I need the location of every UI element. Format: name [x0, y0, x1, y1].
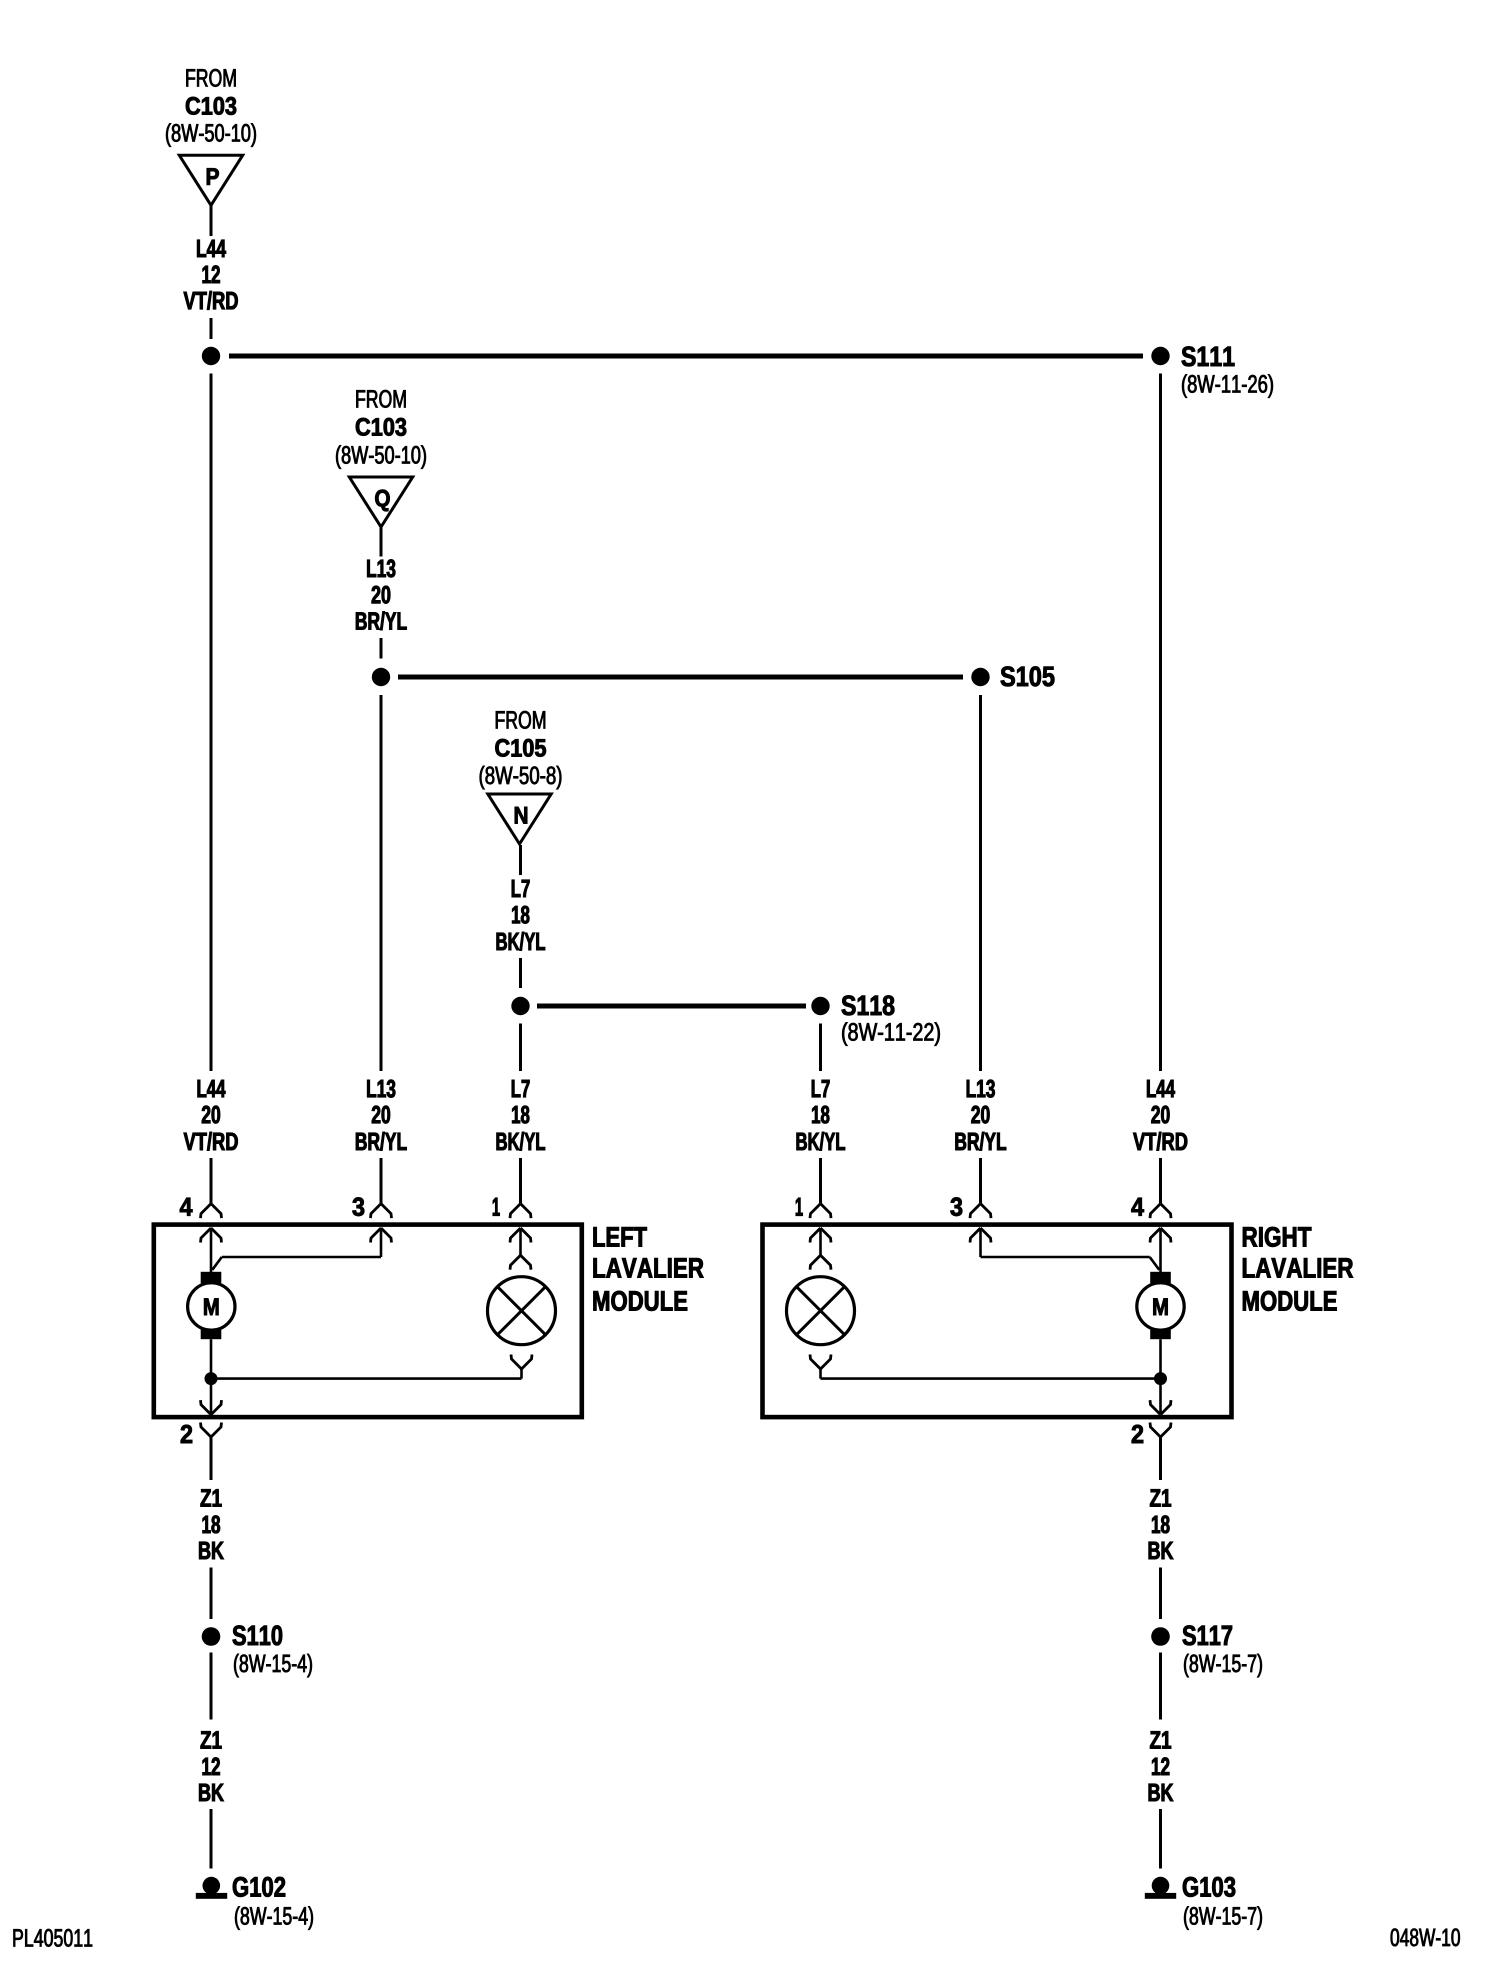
pin 3 number label	[951, 1198, 963, 1217]
wire into pin 4	[1159, 1158, 1162, 1203]
pin 1 connector (module half)	[510, 1228, 531, 1243]
ground G102 label	[233, 1877, 313, 1930]
pin 4 connector (module half)	[1150, 1228, 1171, 1243]
wire diagonal into motor (right)	[1150, 1257, 1160, 1270]
pin 4 number label	[180, 1198, 193, 1216]
pin 2 number label (left)	[181, 1425, 192, 1443]
wire to ground (right)	[1159, 1809, 1162, 1869]
pin 1 number label	[796, 1198, 803, 1216]
wire to ground (left)	[210, 1809, 213, 1869]
wire pin3 stem (left)	[380, 1228, 383, 1257]
lamp bottom terminal connector (left)	[511, 1355, 532, 1370]
sheet number PL405011	[14, 1929, 93, 1947]
wire L44 VT/RD down to right module	[1159, 374, 1162, 1072]
wire into pin 4	[210, 1158, 213, 1203]
module label LEFT LAVALIER MODULE	[594, 1227, 704, 1311]
splice S105 label	[1001, 666, 1055, 686]
wire to ground splice (left)	[210, 1568, 213, 1620]
pin 2 connector wire half (left)	[201, 1423, 222, 1438]
wire label L7 18 BK/YL (left)	[497, 1080, 545, 1151]
module box RIGHT LAVALIER MODULE	[763, 1225, 1232, 1418]
ground G102 symbol	[196, 1877, 227, 1899]
junction dot motor/lamp (left)	[205, 1372, 218, 1385]
wire label L7 18 BK/YL	[497, 880, 545, 951]
wire pin2 down (left)	[210, 1437, 213, 1480]
wire to splice S105 bus	[380, 638, 383, 659]
wire L7 BK/YL down to left module	[519, 1024, 522, 1072]
connector C105 (N) label	[480, 711, 562, 789]
wire label L44 12 VT/RD	[184, 240, 238, 310]
wire into pin 3	[979, 1158, 982, 1203]
lamp bottom terminal connector (right)	[810, 1355, 831, 1370]
wire internal bottom horizontal (right)	[821, 1377, 1161, 1380]
motor M (right)	[1137, 1272, 1184, 1339]
wire pin1 stem (right)	[819, 1228, 822, 1255]
motor M (left)	[188, 1272, 235, 1339]
wire label L7 18 BK/YL (right)	[797, 1080, 845, 1151]
pin 3 connector (wire half)	[371, 1204, 392, 1219]
wire L13 BR/YL down to right module	[979, 695, 982, 1071]
wire L44 VT/RD down to left module	[210, 374, 213, 1072]
lamp terminal connector (left top)	[510, 1255, 531, 1270]
wire pin3 to motor horizontal (left)	[222, 1256, 381, 1259]
wire below splice (right)	[1159, 1653, 1162, 1720]
wire into pin 3	[380, 1158, 383, 1203]
pin 2 number label (right)	[1132, 1425, 1143, 1443]
sheet number 048W-10	[1391, 1929, 1460, 1947]
wire into pin 1	[519, 1158, 522, 1203]
lamp (left)	[488, 1277, 556, 1345]
wire pin4 stem to motor (right)	[1159, 1228, 1162, 1273]
wire lamp to bottom bus (left)	[520, 1369, 523, 1379]
pin 2 connector wire half (right)	[1150, 1423, 1171, 1438]
module box LEFT LAVALIER MODULE	[154, 1225, 582, 1418]
splice S111 label	[1182, 346, 1273, 397]
wire S111 bus	[229, 354, 1143, 359]
connector C103 (P) label	[166, 69, 256, 147]
splice S110 junction dot	[202, 1627, 221, 1646]
connector C103 (Q) label	[336, 390, 426, 469]
splice S118 label	[842, 995, 940, 1045]
wire label L13 20 BR/YL	[356, 560, 407, 631]
wire L13 BR/YL down to left module	[380, 695, 383, 1071]
wire S118 bus	[537, 1004, 806, 1009]
pin 1 connector (wire half)	[510, 1204, 531, 1219]
connector triangle N	[488, 794, 551, 844]
wire L13 from Q	[380, 527, 383, 557]
connector triangle Q	[349, 477, 412, 527]
splice S110 label	[233, 1625, 312, 1677]
splice S118 junction dot	[811, 997, 829, 1015]
junction dot motor/lamp (right)	[1154, 1372, 1167, 1385]
connector triangle P	[179, 155, 242, 205]
wire label Z1 12 BK (right)	[1149, 1731, 1174, 1801]
pin 3 connector (module half)	[371, 1228, 392, 1243]
pin 3 connector (module half)	[970, 1228, 991, 1243]
wire motor to pin2 (right)	[1159, 1339, 1162, 1414]
wire L7 from N	[519, 845, 522, 875]
wire label Z1 12 BK (left)	[199, 1731, 224, 1801]
pin 2 connector module half (left)	[201, 1400, 222, 1415]
wire to splice S118 bus	[519, 958, 522, 988]
lamp (right)	[787, 1277, 855, 1345]
wire label Z1 18 BK (right)	[1149, 1489, 1174, 1559]
wire pin4 stem to motor (left)	[210, 1228, 213, 1273]
wire L7 BK/YL down to right module	[819, 1024, 822, 1072]
wire pin3 stem (right)	[979, 1228, 982, 1257]
ground G103 symbol	[1145, 1877, 1176, 1899]
wire label L44 20 VT/RD (right)	[1133, 1080, 1187, 1151]
pin 4 connector (wire half)	[1150, 1204, 1171, 1219]
splice junction dot (left, S111 bus)	[202, 347, 220, 365]
wire S105 bus	[398, 675, 963, 680]
splice S111 junction dot	[1151, 347, 1169, 365]
splice S117 junction dot	[1151, 1627, 1170, 1646]
lamp terminal connector (right top)	[810, 1255, 831, 1270]
pin 2 connector module half (right)	[1150, 1400, 1171, 1415]
ground G103 label	[1183, 1877, 1262, 1930]
wire diagonal into motor (left)	[212, 1257, 222, 1270]
wire below splice (left)	[210, 1653, 213, 1720]
module label RIGHT LAVALIER MODULE	[1243, 1227, 1353, 1311]
wire pin2 down (right)	[1159, 1437, 1162, 1480]
splice junction dot (left, S118 bus)	[511, 997, 529, 1015]
splice S117 label	[1183, 1625, 1262, 1677]
pin 1 connector (wire half)	[810, 1204, 831, 1219]
wire label L44 20 VT/RD (left)	[184, 1080, 238, 1151]
splice S105 junction dot	[971, 668, 989, 686]
splice junction dot (left, S105 bus)	[372, 668, 390, 686]
wire internal bottom horizontal (left)	[211, 1377, 522, 1380]
wire label Z1 18 BK (left)	[199, 1489, 224, 1559]
wire pin3 to motor horizontal (right)	[981, 1256, 1150, 1259]
wire motor to pin2 (left)	[210, 1339, 213, 1414]
pin 1 connector (module half)	[810, 1228, 831, 1243]
pin 3 connector (wire half)	[970, 1204, 991, 1219]
wire to splice S111 bus	[210, 318, 213, 339]
pin 1 number label	[493, 1198, 500, 1216]
pin 4 connector (wire half)	[201, 1204, 222, 1219]
wire label L13 20 BR/YL (left)	[356, 1080, 407, 1151]
pin 4 connector (module half)	[201, 1228, 222, 1243]
wire pin1 stem (left)	[519, 1228, 522, 1255]
wire lamp to bottom bus (right)	[819, 1369, 822, 1379]
wire into pin 1	[819, 1158, 822, 1203]
wire L44 from P	[210, 205, 213, 236]
wire label L13 20 BR/YL (right)	[956, 1080, 1007, 1151]
wire to ground splice (right)	[1159, 1568, 1162, 1620]
pin 3 number label	[353, 1198, 365, 1217]
pin 4 number label	[1131, 1198, 1144, 1216]
